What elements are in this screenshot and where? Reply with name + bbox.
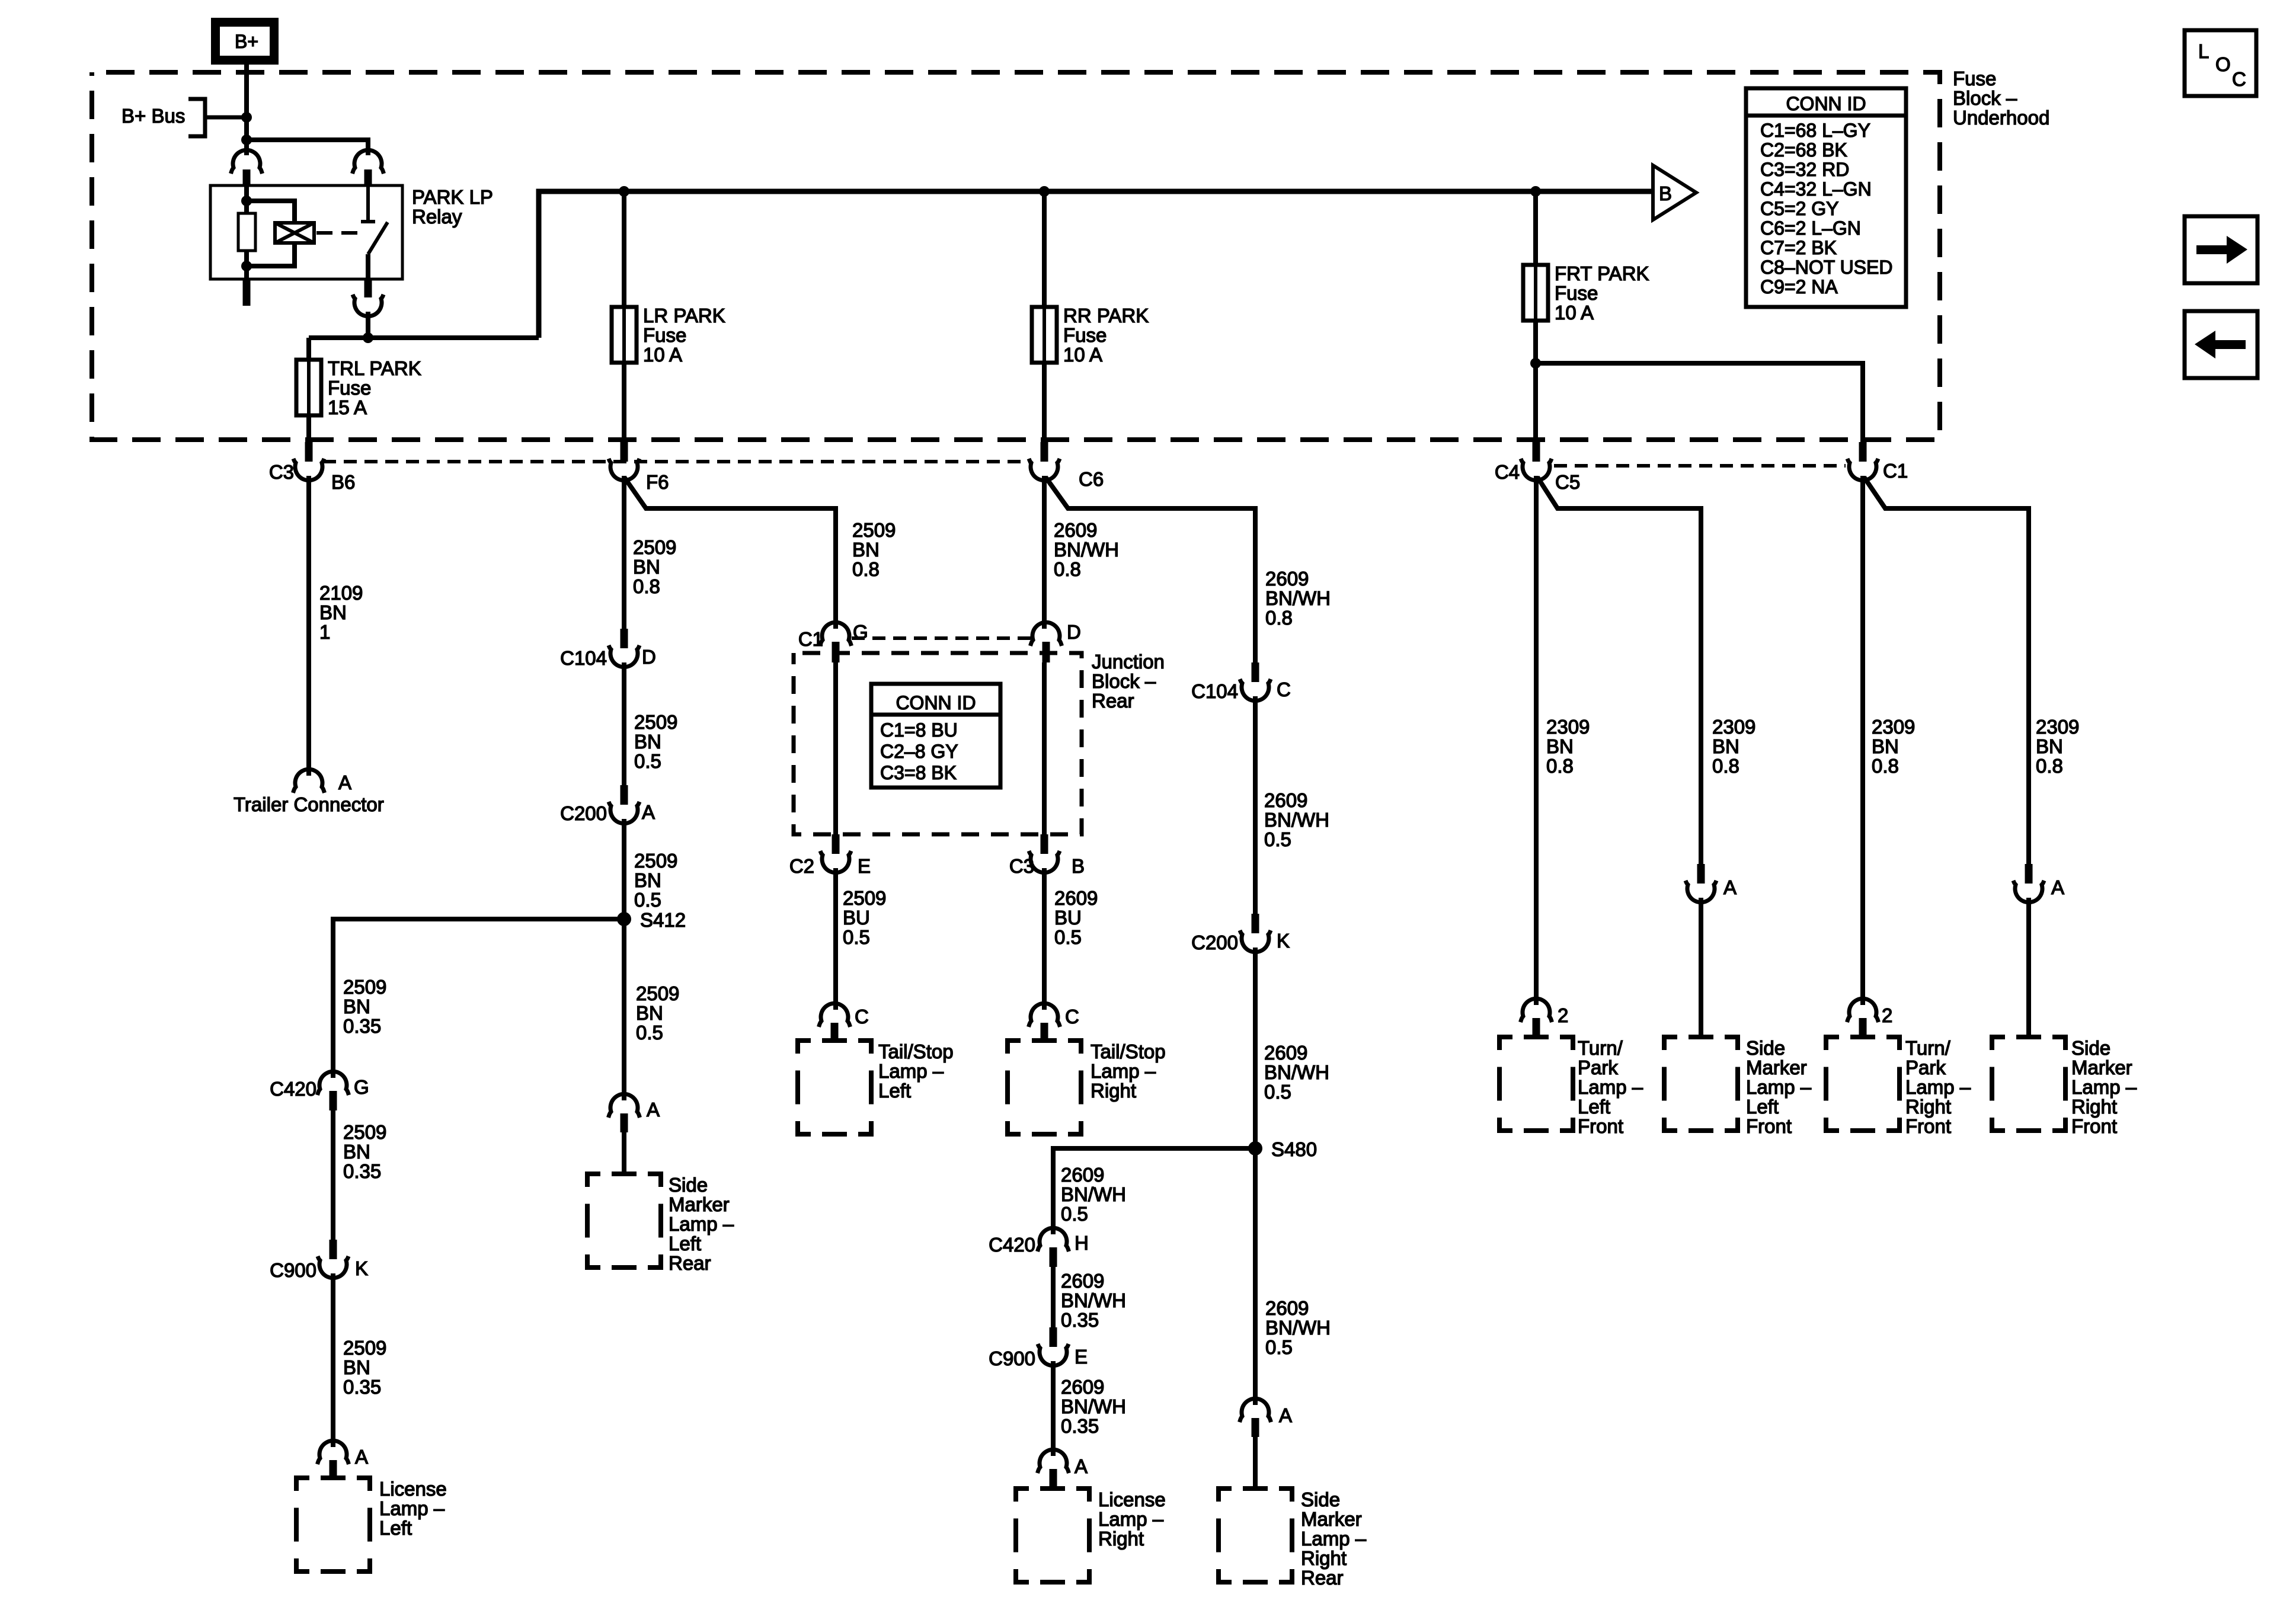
svg-text:Right: Right	[1098, 1528, 1144, 1550]
svg-text:A: A	[647, 1099, 660, 1121]
connector relay coil pin top	[231, 150, 263, 174]
svg-text:2609: 2609	[1054, 887, 1098, 909]
svg-text:C104: C104	[1191, 680, 1238, 702]
svg-text:Lamp –: Lamp –	[1746, 1076, 1812, 1098]
svg-text:Front: Front	[2071, 1115, 2117, 1137]
svg-text:0.35: 0.35	[1061, 1415, 1099, 1437]
svg-text:BN: BN	[343, 1141, 370, 1163]
svg-text:0.8: 0.8	[852, 558, 880, 580]
svg-text:FRT PARK: FRT PARK	[1555, 263, 1649, 284]
svg-text:Rear: Rear	[669, 1252, 711, 1274]
wire C200 to S480	[1253, 948, 1258, 1148]
junction dot bus LR	[619, 186, 629, 197]
wire relay output split	[309, 335, 539, 340]
svg-text:C420: C420	[989, 1234, 1035, 1256]
svg-text:Fuse: Fuse	[1555, 282, 1598, 304]
svg-text:Rear: Rear	[1092, 690, 1134, 712]
connector C420 pin G	[318, 1071, 349, 1095]
wire LR fuse to F6	[622, 363, 626, 443]
connector C tail stop right	[1029, 1003, 1060, 1027]
svg-text:C900: C900	[989, 1347, 1035, 1369]
svg-text:Fuse: Fuse	[643, 324, 686, 346]
svg-text:0.5: 0.5	[1264, 828, 1291, 850]
wire C5 to turn park LF	[1534, 476, 1539, 1005]
wire S480 to side marker right rear	[1253, 1148, 1258, 1405]
svg-text:C9=2 NA: C9=2 NA	[1760, 276, 1838, 297]
svg-text:Trailer Connector: Trailer Connector	[234, 793, 384, 815]
svg-text:C4: C4	[1495, 461, 1520, 483]
off-page arrow B	[1653, 165, 1696, 220]
svg-text:Marker: Marker	[1301, 1508, 1362, 1530]
wire C6 down to D	[1042, 476, 1047, 629]
svg-text:C200: C200	[1191, 932, 1238, 953]
svg-text:CONN ID: CONN ID	[1786, 93, 1866, 114]
junction dot S relay output	[363, 332, 373, 343]
wire relay coil vertical	[244, 185, 249, 279]
wire into side marker LF	[1699, 898, 1703, 1038]
svg-text:BN/WH: BN/WH	[1264, 809, 1329, 831]
wire relay output	[366, 312, 370, 338]
svg-text:Fuse: Fuse	[1063, 324, 1107, 346]
svg-text:2509: 2509	[852, 519, 896, 541]
svg-text:C3: C3	[269, 461, 294, 483]
svg-text:2509: 2509	[634, 850, 677, 872]
connector relay switch pin bottom	[364, 279, 372, 297]
svg-text:Lamp –: Lamp –	[1091, 1060, 1156, 1082]
svg-text:0.5: 0.5	[636, 1022, 663, 1044]
relay coil dead-end stub	[243, 279, 251, 306]
svg-text:K: K	[355, 1257, 368, 1279]
svg-text:2509: 2509	[843, 887, 886, 909]
svg-text:2: 2	[1882, 1004, 1892, 1026]
svg-text:Lamp –: Lamp –	[878, 1060, 944, 1082]
svg-text:BN/WH: BN/WH	[1054, 539, 1119, 561]
lamp box Turn Park Lamp - Right Front	[1826, 1037, 1900, 1131]
svg-text:Marker: Marker	[669, 1193, 730, 1215]
svg-text:Side: Side	[1301, 1489, 1340, 1510]
svg-text:E: E	[858, 855, 871, 877]
svg-text:2109: 2109	[319, 582, 363, 604]
svg-text:BN: BN	[1872, 735, 1899, 757]
svg-text:BN: BN	[343, 996, 370, 1017]
svg-text:A: A	[1075, 1455, 1088, 1477]
svg-text:0.8: 0.8	[633, 575, 660, 597]
connector junction block pin D	[1031, 622, 1062, 646]
svg-text:Underhood: Underhood	[1953, 107, 2049, 129]
svg-text:Turn/: Turn/	[1578, 1037, 1623, 1059]
svg-text:Block –: Block –	[1092, 670, 1156, 692]
wire C900 to license right	[1051, 1361, 1056, 1456]
svg-text:C: C	[855, 1006, 869, 1028]
left arrow icon	[2185, 311, 2257, 378]
wire to TRL PARK fuse	[306, 338, 311, 360]
svg-text:Left: Left	[878, 1080, 911, 1102]
svg-text:A: A	[355, 1446, 368, 1468]
svg-text:BN: BN	[634, 731, 661, 753]
svg-text:0.5: 0.5	[634, 889, 661, 911]
svg-text:Marker: Marker	[1746, 1057, 1807, 1078]
fuse RR PARK 10A	[1032, 307, 1057, 363]
wire bus to LR fuse	[622, 191, 626, 307]
svg-text:A: A	[1723, 876, 1737, 898]
svg-text:BN: BN	[2036, 735, 2063, 757]
junction dot FRT split	[1530, 358, 1541, 369]
connector C900 pin K	[330, 1240, 337, 1259]
svg-text:10 A: 10 A	[1555, 302, 1594, 324]
wire C420 to C900 left	[331, 1110, 335, 1241]
svg-text:0.5: 0.5	[1061, 1203, 1088, 1225]
wire into side marker left rear	[622, 1132, 626, 1175]
svg-text:S412: S412	[640, 909, 686, 931]
lamp box License Lamp - Left	[296, 1478, 370, 1571]
dotted line C1 to D	[852, 636, 1034, 640]
wire C200 to S412	[622, 819, 626, 919]
svg-text:2609: 2609	[1264, 789, 1307, 811]
connector relay switch pin top	[353, 150, 384, 174]
dotted line C5 to C1	[1554, 464, 1846, 468]
svg-text:0.35: 0.35	[1061, 1309, 1099, 1331]
lamp box Side Marker Lamp - Left Front	[1664, 1037, 1738, 1131]
junction dot B+ bus	[241, 112, 252, 123]
connector C3 pin B6	[305, 442, 313, 462]
svg-text:0.5: 0.5	[843, 926, 870, 948]
svg-text:Right: Right	[1091, 1080, 1136, 1102]
fuse LR PARK 10A	[612, 307, 637, 363]
connector C1 underhood	[1859, 442, 1867, 462]
connector C200 pin A	[621, 785, 628, 805]
svg-text:10 A: 10 A	[1063, 344, 1102, 366]
svg-text:Front: Front	[1905, 1115, 1951, 1137]
svg-text:2609: 2609	[1264, 1042, 1307, 1064]
svg-text:C1=68 L–GY: C1=68 L–GY	[1760, 120, 1870, 141]
connector jb C3 pin B	[1041, 834, 1048, 854]
wire S480 left branch	[1053, 1148, 1255, 1234]
svg-text:C4=32 L–GN: C4=32 L–GN	[1760, 178, 1872, 200]
conn id table underhood	[1746, 88, 1906, 307]
svg-text:Right: Right	[1301, 1547, 1347, 1569]
svg-text:Lamp –: Lamp –	[2071, 1076, 2137, 1098]
svg-text:2309: 2309	[1872, 716, 1915, 738]
svg-text:H: H	[1075, 1232, 1089, 1254]
svg-text:2509: 2509	[343, 976, 386, 998]
connector A license left	[318, 1441, 349, 1464]
fuse TRL PARK 15A	[296, 360, 321, 415]
wire RR fuse to C6	[1042, 363, 1047, 443]
lamp box Side Marker Lamp - Right Front	[1992, 1037, 2065, 1131]
wire C1 branch SM RF	[1864, 477, 2029, 865]
svg-text:A: A	[1279, 1404, 1292, 1426]
wire B+ down to relay	[244, 63, 249, 155]
wire C5 branch SM LF	[1537, 477, 1701, 865]
svg-text:2509: 2509	[343, 1121, 386, 1143]
svg-text:F6: F6	[646, 471, 669, 493]
svg-text:C6: C6	[1079, 468, 1104, 490]
svg-text:TRL PARK: TRL PARK	[328, 357, 421, 379]
svg-text:C2=68 BK: C2=68 BK	[1760, 139, 1847, 161]
lamp box Side Marker Lamp - Right Rear	[1219, 1489, 1292, 1582]
svg-text:B: B	[1659, 183, 1672, 204]
svg-text:BN/WH: BN/WH	[1264, 1061, 1329, 1083]
svg-text:C1=8 BU: C1=8 BU	[880, 719, 958, 741]
wire F6 branch to junction block	[624, 477, 836, 629]
lamp box Tail Stop Lamp - Left	[798, 1041, 871, 1134]
junction dot relay coil top	[241, 196, 252, 206]
svg-text:2309: 2309	[1712, 716, 1755, 738]
svg-text:Tail/Stop: Tail/Stop	[878, 1041, 954, 1062]
svg-text:Park: Park	[1578, 1057, 1618, 1078]
connector C tail stop left	[819, 1003, 850, 1027]
splice S480	[1248, 1141, 1262, 1156]
svg-text:E: E	[1075, 1346, 1088, 1368]
svg-text:Fuse: Fuse	[328, 377, 371, 399]
svg-text:B6: B6	[331, 471, 355, 493]
relay coil symbol	[275, 223, 314, 243]
svg-text:Park: Park	[1905, 1057, 1946, 1078]
svg-text:C3=8 BK: C3=8 BK	[880, 762, 957, 783]
svg-text:O: O	[2215, 53, 2231, 75]
svg-text:2609: 2609	[1061, 1376, 1104, 1398]
wire into side marker right rear	[1253, 1437, 1258, 1490]
svg-text:Left: Left	[1746, 1096, 1779, 1118]
svg-text:A: A	[642, 801, 655, 823]
svg-text:0.5: 0.5	[1054, 926, 1082, 948]
svg-text:0.8: 0.8	[1265, 607, 1293, 629]
resistor inside relay	[238, 213, 255, 251]
svg-text:B+: B+	[235, 31, 258, 52]
svg-text:2: 2	[1558, 1004, 1568, 1026]
fuse FRT PARK 10A	[1523, 265, 1548, 321]
svg-text:Front: Front	[1578, 1115, 1623, 1137]
svg-text:2309: 2309	[1546, 716, 1590, 738]
svg-text:C420: C420	[270, 1078, 316, 1100]
relay switch blade	[368, 222, 388, 254]
svg-text:B: B	[1072, 855, 1085, 877]
svg-text:0.8: 0.8	[1872, 755, 1899, 777]
wire to relay switch side	[247, 140, 368, 155]
relay switch contact	[361, 185, 375, 222]
svg-text:Lamp –: Lamp –	[1905, 1076, 1971, 1098]
wire S412 left branch	[333, 919, 624, 1078]
svg-text:2609: 2609	[1061, 1270, 1104, 1292]
svg-text:BN/WH: BN/WH	[1061, 1395, 1126, 1417]
svg-text:2609: 2609	[1265, 568, 1309, 590]
svg-text:PARK LP: PARK LP	[412, 186, 493, 208]
connector A side marker right rear	[1240, 1398, 1271, 1422]
wire C104 to C200	[622, 662, 626, 786]
svg-text:C2: C2	[789, 855, 814, 877]
wire coil branch	[247, 201, 295, 223]
svg-text:BN: BN	[343, 1356, 370, 1378]
svg-text:Block –: Block –	[1953, 87, 2017, 109]
svg-text:1: 1	[319, 621, 330, 643]
lamp box Turn Park Lamp - Left Front	[1499, 1037, 1573, 1131]
connector A side marker LF	[1697, 864, 1705, 884]
wire jb D to C3	[1042, 662, 1047, 836]
wire jb C1 to C2	[833, 662, 838, 836]
svg-text:2609: 2609	[1265, 1297, 1309, 1319]
wire bus to FRT fuse	[1533, 191, 1538, 265]
dotted line C3 to C6 row	[323, 460, 1029, 463]
connector C104 pin D	[621, 629, 628, 648]
lamp box License Lamp - Right	[1016, 1489, 1089, 1582]
svg-text:BN: BN	[633, 556, 660, 578]
relay box PARK LP	[210, 185, 402, 279]
wire FRT to C4	[1533, 363, 1538, 443]
svg-text:C8–NOT USED: C8–NOT USED	[1760, 257, 1892, 278]
connector trailer A	[293, 769, 325, 793]
wire FRT fuse down	[1533, 321, 1538, 363]
svg-text:CONN ID: CONN ID	[896, 692, 976, 713]
svg-text:Tail/Stop: Tail/Stop	[1091, 1041, 1166, 1062]
junction dot relay feed split	[241, 135, 252, 145]
fuse block - underhood border	[92, 72, 1940, 440]
svg-text:0.5: 0.5	[634, 750, 661, 772]
B+ power symbol	[211, 18, 279, 65]
wire C6 branch	[1045, 477, 1255, 664]
right arrow icon	[2185, 216, 2257, 283]
svg-text:Lamp –: Lamp –	[1578, 1076, 1643, 1098]
svg-text:0.35: 0.35	[343, 1376, 381, 1398]
connector jb C2 pin E	[832, 834, 840, 854]
svg-text:C5: C5	[1555, 471, 1580, 493]
svg-text:0.8: 0.8	[2036, 755, 2063, 777]
svg-text:Lamp –: Lamp –	[669, 1213, 734, 1235]
connector 2 turn park RF	[1847, 998, 1879, 1022]
svg-text:C900: C900	[270, 1259, 316, 1281]
svg-text:Front: Front	[1746, 1115, 1792, 1137]
wire C420 to C900 right	[1051, 1267, 1056, 1329]
svg-text:BN/WH: BN/WH	[1061, 1183, 1126, 1205]
wire C1 to turn park RF	[1860, 476, 1865, 1005]
wire bus to RR fuse	[1042, 191, 1047, 307]
wire relay switch bottom	[366, 254, 370, 279]
svg-text:Rear: Rear	[1301, 1567, 1344, 1589]
svg-text:K: K	[1277, 930, 1290, 952]
svg-text:Lamp –: Lamp –	[1098, 1508, 1164, 1530]
svg-text:BU: BU	[1054, 907, 1082, 929]
connector C200 pin K	[1252, 914, 1259, 933]
svg-text:L: L	[2198, 40, 2209, 62]
svg-text:Right: Right	[1905, 1096, 1951, 1118]
svg-text:0.5: 0.5	[1264, 1081, 1291, 1103]
connector A license right	[1038, 1449, 1069, 1473]
svg-text:2609: 2609	[1054, 519, 1097, 541]
connector junction block C1 pin G	[820, 622, 852, 646]
svg-text:C: C	[1065, 1006, 1079, 1028]
wire TRL fuse to C3	[306, 415, 311, 443]
connector C104 pin C	[1252, 662, 1259, 682]
svg-text:Left: Left	[379, 1517, 412, 1539]
svg-text:Right: Right	[2071, 1096, 2117, 1118]
svg-text:A: A	[338, 772, 351, 793]
LOC icon box	[2185, 30, 2256, 96]
splice S412	[617, 912, 631, 926]
svg-text:C6=2 L–GN: C6=2 L–GN	[1760, 217, 1861, 239]
junction block conn id table	[871, 684, 1000, 788]
wire S412 to side marker	[622, 919, 626, 1100]
svg-text:Side: Side	[2071, 1037, 2110, 1059]
svg-text:0.8: 0.8	[1054, 558, 1081, 580]
connector C900 pin E	[1050, 1327, 1057, 1347]
svg-text:Fuse: Fuse	[1953, 68, 1996, 89]
wire coil branch bottom	[247, 243, 295, 266]
wire C104 to C200 right	[1253, 696, 1258, 915]
svg-text:C1: C1	[798, 628, 823, 650]
svg-text:2609: 2609	[1061, 1164, 1104, 1186]
wire F6 down	[622, 476, 626, 630]
svg-text:Turn/: Turn/	[1905, 1037, 1951, 1059]
wire main bus from relay	[539, 191, 1651, 338]
svg-text:C: C	[2232, 68, 2246, 90]
svg-text:BN: BN	[319, 601, 347, 623]
svg-text:C200: C200	[560, 802, 607, 824]
wire C900 to license left	[331, 1273, 335, 1447]
svg-text:D: D	[1067, 621, 1081, 643]
svg-text:License: License	[1098, 1489, 1166, 1510]
svg-text:BN: BN	[634, 869, 661, 891]
connector 2 turn park LF	[1521, 998, 1552, 1022]
svg-text:G: G	[354, 1076, 369, 1098]
svg-text:BN: BN	[852, 539, 880, 561]
relay actuation dashed link	[316, 231, 364, 235]
svg-text:C2–8 GY: C2–8 GY	[880, 741, 958, 762]
svg-text:BN: BN	[636, 1002, 663, 1024]
junction dot bus RR	[1039, 186, 1050, 197]
svg-text:Side: Side	[669, 1174, 708, 1196]
connector A side marker RF	[2025, 864, 2033, 884]
connector C4 C5	[1533, 442, 1540, 462]
junction dot bus FRT	[1530, 186, 1541, 197]
svg-text:BN/WH: BN/WH	[1265, 587, 1331, 609]
svg-text:S480: S480	[1271, 1138, 1317, 1160]
svg-text:B+ Bus: B+ Bus	[121, 105, 185, 127]
svg-text:0.8: 0.8	[1712, 755, 1739, 777]
connector F6	[621, 442, 628, 462]
svg-text:BN/WH: BN/WH	[1061, 1289, 1126, 1311]
svg-text:0.35: 0.35	[343, 1015, 381, 1037]
svg-text:A: A	[2051, 876, 2064, 898]
wire 2109 BN to trailer	[306, 476, 311, 776]
lamp box Side Marker Lamp - Left Rear	[587, 1174, 661, 1267]
connector C6	[1041, 442, 1048, 462]
svg-text:BN: BN	[1712, 735, 1739, 757]
junction block - rear border	[794, 653, 1082, 834]
wire into side marker RF	[2026, 898, 2031, 1038]
svg-text:2509: 2509	[343, 1337, 386, 1359]
svg-text:C: C	[1277, 678, 1291, 700]
svg-text:Lamp –: Lamp –	[1301, 1528, 1367, 1550]
svg-text:Left: Left	[1578, 1096, 1610, 1118]
svg-text:D: D	[642, 646, 656, 668]
svg-text:15 A: 15 A	[328, 396, 367, 418]
svg-text:2509: 2509	[636, 982, 679, 1004]
svg-text:C1: C1	[1883, 460, 1908, 482]
lamp box Tail Stop Lamp - Right	[1008, 1041, 1081, 1134]
svg-text:Side: Side	[1746, 1037, 1785, 1059]
svg-text:C5=2 GY: C5=2 GY	[1760, 198, 1839, 219]
svg-text:Marker: Marker	[2071, 1057, 2132, 1078]
svg-text:2509: 2509	[633, 536, 676, 558]
connector A side marker left rear	[609, 1094, 640, 1118]
svg-text:Junction: Junction	[1092, 651, 1165, 673]
junction dot relay coil bottom	[241, 261, 252, 271]
svg-text:RR PARK: RR PARK	[1063, 305, 1149, 327]
wire C2 to tail stop left	[833, 868, 838, 1010]
connector C420 pin H	[1038, 1228, 1069, 1251]
wire C3 to tail stop right	[1042, 868, 1047, 1010]
svg-text:C3: C3	[1009, 855, 1034, 877]
svg-text:Left: Left	[669, 1233, 701, 1254]
